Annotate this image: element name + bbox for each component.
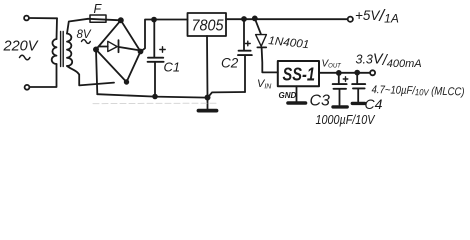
- wire 7805 output rail: [226, 18, 348, 20]
- fuse F: [90, 15, 106, 22]
- svg-text:+5V/1A: +5V/1A: [355, 6, 399, 26]
- terminal +5V: [348, 17, 353, 22]
- svg-text:C4: C4: [365, 96, 383, 112]
- wire bottom rail: [97, 94, 207, 97]
- label tilde 220V: [20, 55, 30, 60]
- svg-text:220V: 220V: [3, 39, 39, 55]
- wire secondary bottom to bridge: [67, 66, 114, 85]
- terminal 3.3V: [370, 70, 375, 75]
- node C2 tap: [242, 17, 246, 21]
- svg-text:3.3V/400mA: 3.3V/400mA: [356, 52, 422, 71]
- ground G4: [352, 102, 364, 105]
- node bottom vertex: [125, 80, 129, 84]
- svg-text:C2: C2: [221, 56, 239, 71]
- bridge diode symbol: [99, 46, 108, 48]
- module U2 SS-1: [278, 61, 319, 86]
- wire 7805 gnd: [206, 36, 209, 98]
- wire bridge plus to rail: [141, 20, 188, 52]
- label tilde 8V: [82, 40, 91, 44]
- wire through fuse to bridge: [88, 19, 121, 21]
- node diode tap: [253, 16, 257, 20]
- node C1 top tap: [152, 18, 156, 22]
- svg-text:VIN: VIN: [257, 78, 272, 91]
- ground G3: [333, 105, 347, 108]
- diode D1 1N4001: [255, 18, 261, 33]
- svg-text:VOUT: VOUT: [322, 59, 343, 70]
- svg-text:GND: GND: [279, 91, 297, 100]
- regulator U1 7805: [188, 13, 227, 36]
- wire secondary top to fuse: [67, 19, 88, 34]
- transformer T secondary: [67, 34, 72, 66]
- ground G2: [288, 101, 306, 105]
- node C1 bottom: [153, 95, 157, 99]
- node C3 tap: [337, 71, 341, 75]
- terminal AC input top: [24, 16, 29, 21]
- wire (faint scan shadow): [93, 102, 218, 104]
- svg-text:C1: C1: [164, 60, 181, 75]
- capacitor C4: [356, 73, 358, 84]
- wire SS-1 gnd: [296, 86, 298, 101]
- transformer T primary: [56, 18, 59, 39]
- node ground junction: [205, 95, 209, 99]
- ground G1: [207, 98, 209, 109]
- svg-text:C3: C3: [310, 93, 331, 110]
- capacitor C1: [153, 20, 155, 58]
- node left vertex: [94, 47, 98, 51]
- node right vertex: [139, 50, 143, 54]
- wire C2 return: [208, 92, 245, 97]
- node C4 tap: [355, 71, 359, 75]
- svg-text:4.7~10µF/10V (MLCC): 4.7~10µF/10V (MLCC): [371, 84, 464, 98]
- transformer core: [60, 32, 62, 67]
- svg-text:8V: 8V: [77, 29, 92, 41]
- bridge rectifier diamond: [96, 20, 141, 82]
- svg-text:7805: 7805: [192, 18, 224, 35]
- wire bridge minus to ground rail: [96, 50, 97, 95]
- svg-text:SS-1: SS-1: [283, 65, 316, 85]
- svg-text:F: F: [94, 2, 103, 16]
- wire: [29, 17, 57, 19]
- terminal AC input bottom: [25, 85, 30, 90]
- capacitor C3: [338, 73, 340, 84]
- capacitor C2: [243, 19, 245, 50]
- svg-text:1000µF/10V: 1000µF/10V: [316, 113, 376, 127]
- svg-text:1N4001: 1N4001: [268, 35, 310, 51]
- wire SS-1 vout: [319, 72, 370, 74]
- node top vertex: [119, 18, 123, 22]
